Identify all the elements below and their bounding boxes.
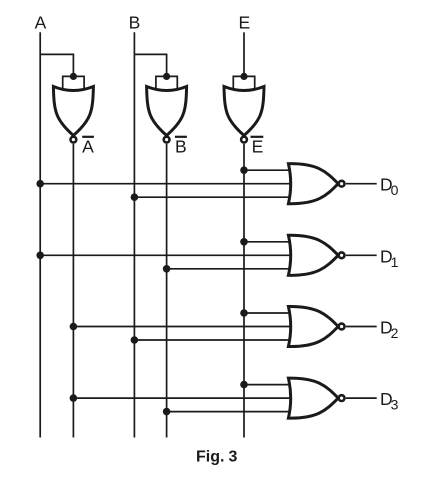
junction dot Abar to D2	[70, 323, 78, 331]
junction dot Ebar to D2	[240, 309, 248, 317]
wire B branch to inverter U2 input	[134, 54, 166, 76]
inverter U1 output bubble	[71, 137, 77, 143]
svg-text:0: 0	[391, 182, 399, 198]
inverter U2 tie bar (inputs tied)	[156, 76, 177, 89]
svg-text:A: A	[35, 13, 47, 33]
inverter U2 body	[147, 87, 187, 136]
wire D0 gate input bottom from B	[134, 196, 292, 198]
wire D2 gate input bottom from B	[134, 339, 292, 341]
svg-text:A: A	[82, 136, 94, 156]
wire D0 gate input top from Ebar	[244, 169, 292, 171]
junction dot B to D2	[131, 336, 139, 344]
inverter U2 output bubble	[164, 137, 170, 143]
NOR gate U6 output bubble	[339, 324, 345, 330]
node D3 label	[380, 389, 399, 413]
svg-text:3: 3	[391, 397, 399, 413]
wire D1 gate input middle from A	[40, 254, 292, 256]
NOR gate U7 output bubble	[339, 395, 345, 401]
wire D2 gate input top from Ebar	[244, 312, 292, 314]
svg-text:2: 2	[391, 325, 399, 341]
svg-text:E: E	[252, 136, 264, 156]
NOR gate U7 (D3) body	[288, 378, 338, 418]
caption Fig. 3	[196, 449, 238, 466]
svg-text:Fig.: Fig.	[196, 449, 224, 466]
junction dot Ebar to D0	[240, 166, 248, 174]
junction dot on U1 tie bar	[70, 73, 77, 80]
node D0 label	[380, 175, 399, 199]
wire D3 output	[346, 397, 377, 399]
junction dot Bbar to D3	[163, 408, 171, 416]
wire Ebar vertical	[243, 144, 245, 438]
inverter U1 body	[53, 87, 93, 136]
wire D1 output	[346, 254, 377, 256]
wire D2 output	[346, 326, 377, 328]
wire A branch to inverter U1 input	[40, 54, 73, 76]
junction dot A to D1	[36, 252, 44, 260]
junction dot B to D0	[131, 193, 139, 201]
junction dot Ebar to D3	[240, 381, 248, 389]
inverter U3 body	[224, 87, 264, 136]
junction dot A to D0	[36, 180, 44, 188]
svg-text:1: 1	[391, 254, 399, 270]
svg-text:3: 3	[229, 449, 238, 466]
wire D0 output	[346, 183, 377, 185]
inverter U3 tie bar (inputs tied)	[233, 76, 254, 89]
junction dot on U3 tie bar	[240, 73, 247, 80]
wire D1 gate input top from Ebar	[244, 241, 292, 243]
svg-text:E: E	[238, 13, 250, 33]
junction dot Ebar to D1	[240, 238, 248, 246]
wire D3 gate input top from Ebar	[244, 384, 292, 386]
node Bbar label	[175, 136, 187, 156]
NOR gate U5 output bubble	[339, 252, 345, 258]
wire D0 gate input middle from A	[40, 183, 292, 185]
wire D2 gate input middle from Abar	[73, 326, 292, 328]
inverter U3 output bubble	[241, 137, 247, 143]
svg-text:B: B	[175, 136, 187, 156]
junction dot Abar to D3	[70, 394, 78, 402]
svg-text:B: B	[129, 13, 141, 33]
junction dot Bbar to D1	[163, 265, 171, 273]
wire D3 gate input middle from Abar	[73, 397, 292, 399]
node Abar label	[82, 136, 94, 156]
wire Bbar vertical	[166, 144, 168, 438]
inverter U1 tie bar (inputs tied)	[63, 76, 84, 89]
wire B vertical	[133, 32, 135, 437]
NOR gate U4 (D0) body	[288, 164, 338, 204]
wire D3 gate input bottom from Bbar	[167, 411, 292, 413]
NOR gate U5 (D1) body	[288, 235, 338, 275]
wire A vertical	[39, 32, 41, 437]
node D2 label	[380, 318, 399, 342]
wire E vertical to inverter U3 input	[243, 32, 245, 76]
node D1 label	[380, 246, 399, 270]
NOR gate U6 (D2) body	[288, 306, 338, 346]
NOR gate U4 output bubble	[339, 181, 345, 187]
wire D1 gate input bottom from Bbar	[167, 268, 292, 270]
node Ebar label	[251, 136, 264, 156]
wire Abar vertical	[72, 144, 74, 438]
junction dot on U2 tie bar	[163, 73, 170, 80]
